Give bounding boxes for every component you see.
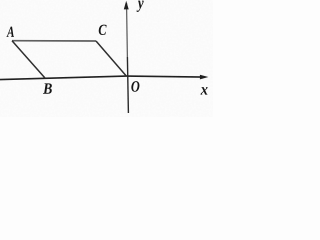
parallelogram side AB (left edge) <box>12 41 45 79</box>
label B <box>43 83 52 93</box>
label A <box>6 27 14 37</box>
x-axis arrowhead <box>200 75 209 80</box>
y-axis lower segment <box>126 57 129 113</box>
scan noise film <box>0 0 213 117</box>
parallelogram side AC (top edge) <box>12 40 96 42</box>
y-axis upper segment <box>126 3 129 57</box>
label x <box>201 87 208 94</box>
parallelogram side CO (right edge) <box>96 41 126 76</box>
label y <box>137 1 144 12</box>
x-axis <box>0 76 204 80</box>
y-axis arrowhead <box>124 1 129 10</box>
label C <box>99 25 107 35</box>
label O <box>131 81 139 92</box>
